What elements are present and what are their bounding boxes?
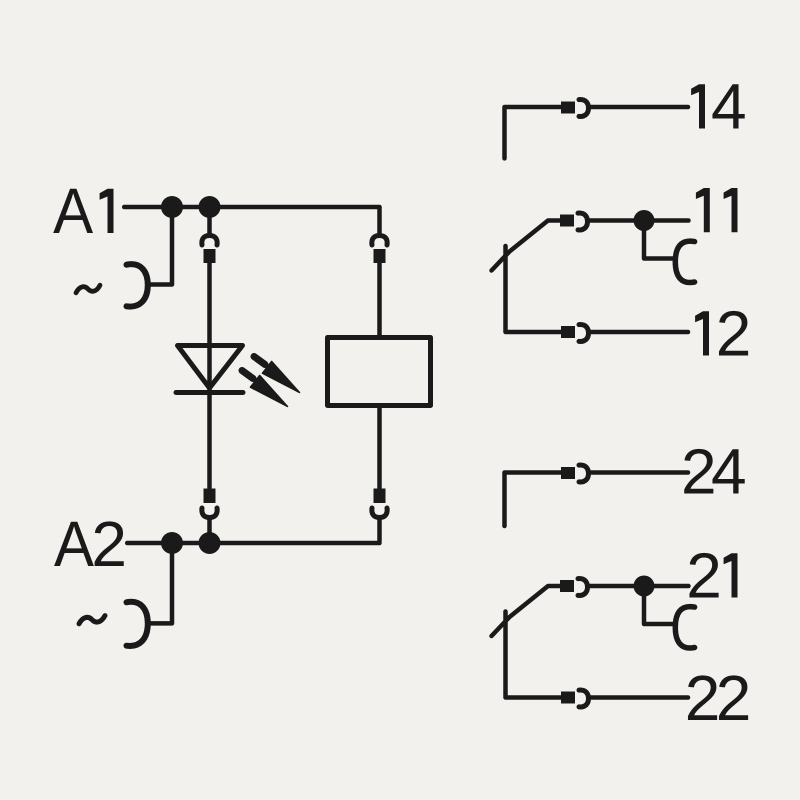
junction dot A2-right	[199, 532, 221, 554]
clamp terminal socket 21 (opening right)	[675, 607, 694, 648]
connector plug pin 24	[561, 467, 575, 479]
connector socket 22 (opening left)	[579, 690, 589, 707]
svg-text:A: A	[54, 508, 94, 580]
connector plug pin 12	[561, 326, 575, 338]
connector plug pin 21	[560, 580, 574, 592]
wire to label 22	[591, 695, 689, 700]
svg-text:2: 2	[716, 298, 752, 370]
wire LED branch vertical	[207, 263, 212, 488]
AC symbol near A1	[76, 285, 100, 293]
LED D1 triangle	[178, 346, 243, 389]
LED emission arrow 2	[242, 371, 288, 407]
connector plug pin bottom of coil branch	[374, 489, 386, 504]
svg-text:4: 4	[711, 436, 747, 508]
terminal label A2	[54, 508, 127, 580]
contact label 12	[695, 298, 751, 370]
contact label 11	[696, 188, 738, 232]
connector socket 11 (opening left)	[578, 213, 588, 230]
connector socket 21 (opening left)	[578, 579, 588, 596]
relay coil K1	[328, 338, 431, 406]
AC symbol near A2	[79, 616, 105, 624]
wire from 11 junction to clamp socket	[644, 226, 675, 259]
wire to label 21	[590, 584, 689, 589]
wire A2 horizontal rail	[127, 541, 379, 546]
wire NO contact 14 corner with hanging stub	[505, 107, 562, 158]
wire to label 12	[591, 330, 689, 335]
connector socket 14 (opening left)	[579, 100, 589, 117]
wire stub LED branch to A2 junction	[207, 518, 212, 541]
connector socket (opening up) bottom of LED branch	[202, 508, 217, 518]
changeover blade contact 21	[492, 586, 562, 636]
junction dot A1-right	[199, 196, 221, 218]
connector plug pin 14	[561, 102, 575, 114]
wire coil branch lower vertical	[377, 406, 382, 489]
svg-text:2: 2	[686, 540, 722, 612]
clamp terminal socket A1	[127, 264, 148, 306]
connector plug pin top of coil branch	[374, 249, 386, 263]
wire A1 horizontal rail	[124, 205, 379, 210]
wire stub coil branch to A2 rail	[377, 518, 382, 542]
LED emission arrow 1	[254, 357, 300, 393]
wire from A2 junction down to clamp terminal	[150, 548, 172, 623]
LED D1 cathode bar	[176, 390, 243, 395]
contact label 14	[691, 71, 746, 143]
contact label 22	[685, 662, 751, 734]
connector socket 12 (opening left)	[579, 325, 589, 342]
wire relay coil branch corner down	[377, 208, 382, 236]
wire coil branch upper vertical	[377, 263, 382, 338]
connector plug pin top of LED branch	[204, 249, 216, 263]
svg-text:2: 2	[716, 662, 752, 734]
wire from A1 junction down to clamp terminal	[150, 212, 172, 285]
connector socket (opening down) top of LED branch	[202, 236, 217, 246]
connector plug pin 22	[561, 692, 575, 704]
wire NO contact 24 corner with hanging stub	[505, 473, 562, 527]
wire stub from A1 junction to LED branch connector	[207, 212, 212, 236]
wire pole vertical to 12 row	[506, 246, 562, 332]
wire pole vertical to 22 row	[506, 612, 562, 698]
clamp terminal socket 11 (opening right)	[675, 241, 694, 282]
connector socket (opening up) bottom of coil branch	[372, 508, 387, 518]
contact label 24	[681, 436, 747, 508]
wire to label 24	[591, 470, 689, 475]
wire from 21 junction to clamp socket	[644, 592, 675, 625]
svg-text:4: 4	[711, 71, 747, 143]
clamp terminal socket A2	[127, 602, 148, 646]
connector plug pin bottom of LED branch	[204, 489, 216, 504]
connector socket 24 (opening left)	[579, 465, 589, 482]
junction dot A1-left	[161, 196, 183, 218]
junction dot contact 11	[634, 210, 655, 231]
changeover blade contact 11	[492, 221, 562, 271]
wire to label 11	[590, 218, 689, 223]
wire to label 14	[591, 105, 689, 110]
contact label 21	[686, 540, 737, 612]
junction dot A2-left	[161, 532, 183, 554]
connector plug pin 11	[560, 215, 574, 227]
terminal label A1	[53, 175, 113, 247]
svg-text:2: 2	[91, 508, 127, 580]
junction dot contact 21	[634, 576, 655, 597]
connector socket (opening down) top of coil branch	[372, 236, 387, 246]
svg-text:A: A	[53, 175, 93, 247]
